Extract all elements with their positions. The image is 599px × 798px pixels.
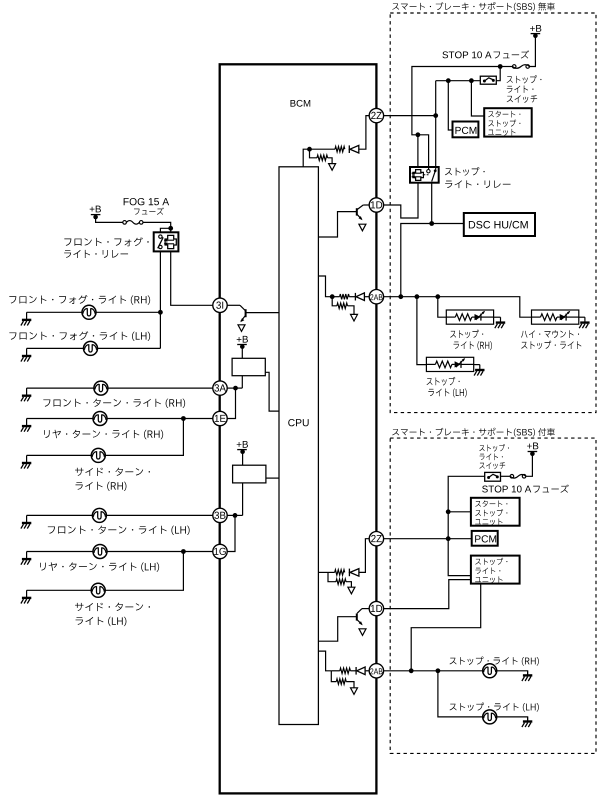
wire: DSC line bbox=[401, 224, 464, 297]
front fog light RH label bbox=[9, 295, 150, 305]
front turn light LH label bbox=[48, 526, 190, 535]
node 1D (upper) bbox=[369, 198, 383, 212]
node 1D (lower) bbox=[369, 601, 383, 615]
wire: +B to driver block 2 bbox=[242, 451, 244, 465]
internal ground arrow (Q2 emitter) bbox=[359, 224, 366, 231]
SBS-less system title bbox=[392, 2, 555, 11]
+B supply (SBS-less) bbox=[530, 25, 541, 32]
wire: stop light unit output bbox=[411, 584, 481, 671]
front fog light RH bulb bbox=[82, 305, 96, 319]
SBS-equipped system title bbox=[392, 428, 555, 437]
wire: diode to 2Z bbox=[359, 116, 370, 150]
wire: 3A to driver bbox=[227, 387, 242, 389]
wire: branch to stop light LH (lower) bbox=[438, 671, 483, 717]
wire: ground to side turn LH bulb bbox=[27, 589, 92, 591]
transistor Q2 (stop relay driver) bbox=[363, 204, 369, 206]
wire: branch to start-stop unit (lower) bbox=[448, 511, 471, 513]
fuse F2 STOP 10A (upper) bbox=[512, 65, 529, 69]
FOG 15 A fuse label bbox=[124, 198, 169, 205]
front turn light LH bulb bbox=[92, 508, 106, 522]
resistor R8 (pull-down) bbox=[331, 671, 336, 682]
node 2AB (lower) bbox=[369, 664, 383, 678]
rear turn light LH bulb bbox=[93, 545, 107, 559]
junction: stop LH branch (lower) bbox=[436, 668, 441, 673]
stop light RH (LED) bbox=[446, 310, 493, 324]
wire: rear turn RH bulb to BCM 1E bbox=[107, 418, 213, 420]
node 2Z (upper) bbox=[369, 108, 383, 122]
wire: rear turn LH bulb to BCM 1G bbox=[107, 551, 213, 553]
wire: driver block 1 to CPU bbox=[265, 372, 279, 411]
wire: fuse to fog relay bbox=[143, 222, 170, 228]
side turn light RH bulb bbox=[91, 448, 105, 462]
CPU label bbox=[288, 419, 308, 426]
DSC HU/CM box bbox=[464, 213, 535, 236]
junction: fuse output (upper) bbox=[498, 64, 503, 69]
wire + ground G13 bbox=[497, 717, 528, 722]
wire: relay switch to fog lights bbox=[159, 251, 161, 348]
wire: branch to relay coil bbox=[170, 228, 172, 232]
side turn light LH label bbox=[75, 603, 150, 611]
junction: 2Z/switch contact bbox=[433, 113, 438, 118]
wire: 1D to stop light unit bbox=[383, 580, 471, 609]
ground G1 bbox=[21, 312, 31, 325]
junction: stop RH branch bbox=[435, 294, 440, 299]
stop light LH label (lower) bbox=[450, 703, 539, 712]
wire: diode to lower 2AB bbox=[366, 670, 370, 672]
wire: fuse output to relay contacts feed bbox=[412, 67, 500, 170]
resistor R7 bbox=[331, 670, 340, 672]
wire: branch to relay switch contact bbox=[160, 228, 170, 232]
junction: fog relay feed bbox=[168, 226, 173, 231]
wire: driver block 2 output to 3B bbox=[242, 483, 244, 516]
front fog light relay label bbox=[64, 237, 148, 246]
fuse F1 FOG 15A bbox=[123, 221, 143, 225]
STOP 10A fuse label (lower) bbox=[482, 486, 531, 493]
junction: stop LH branch bbox=[415, 294, 420, 299]
wire: ground to side turn RH bulb bbox=[27, 454, 92, 456]
diode D3 bbox=[349, 569, 359, 577]
resistor R4 (pull-down) bbox=[332, 297, 337, 306]
stop light switch (upper) bbox=[480, 76, 496, 84]
CPU box bbox=[279, 167, 318, 725]
wire + ground G11 bbox=[474, 364, 480, 366]
front fog light relay bbox=[154, 232, 179, 251]
wire: +B to driver block 1 bbox=[241, 346, 243, 358]
stop light LH label (upper) bbox=[427, 377, 460, 386]
node 2AB (upper) bbox=[369, 290, 383, 304]
wire: driver block 1 output to 3A bbox=[241, 376, 243, 388]
wire: branch to PCM bbox=[448, 81, 452, 130]
wire: CPU to lower 2Z stage bbox=[318, 571, 328, 573]
stop light relay label bbox=[445, 167, 485, 176]
wire: junction to 1G bbox=[227, 515, 235, 551]
junction: start-stop unit branch (lower) bbox=[446, 509, 451, 514]
internal ground arrow (Q3 emitter) bbox=[359, 629, 366, 636]
+B supply (fog) bbox=[90, 206, 101, 213]
wire: +B to fog fuse bbox=[96, 217, 123, 223]
high-mount stop light label bbox=[521, 330, 579, 338]
front turn light RH bulb bbox=[94, 381, 108, 395]
start-stop unit box (upper) bbox=[484, 108, 532, 136]
node 3I bbox=[213, 298, 227, 312]
junction: rear/side turn RH bbox=[181, 416, 186, 421]
stop light RH label (lower) bbox=[450, 657, 539, 666]
diode D4 bbox=[350, 670, 356, 672]
wire: junction down to relay contact bbox=[435, 81, 437, 170]
ground G6 bbox=[21, 515, 31, 528]
rear turn light RH bulb bbox=[93, 412, 107, 426]
wire: side turn RH bulb to junction bbox=[105, 419, 183, 456]
internal ground arrow (Q1 emitter) bbox=[238, 325, 245, 332]
PCM box (lower) bbox=[472, 531, 498, 546]
STOP 10A fuse label (upper) bbox=[442, 51, 491, 58]
stop light LH (LED) bbox=[426, 357, 473, 371]
wire: front turn RH bulb to BCM 3A bbox=[108, 387, 213, 389]
stop light switch label (lower) bbox=[479, 444, 508, 451]
wire: switch to units feed bbox=[448, 476, 485, 575]
wire: junction to relay coil bbox=[417, 135, 419, 167]
resistor R3 bbox=[332, 296, 339, 298]
ground G5 bbox=[21, 455, 31, 468]
junction: 2Z stage bbox=[307, 147, 312, 152]
PCM box (upper) bbox=[453, 122, 479, 138]
wire + internal ground arrow R4 bbox=[348, 306, 355, 315]
wire: 2Z to relay bbox=[383, 115, 435, 117]
wire + ground G10 bbox=[579, 316, 585, 318]
wire: side turn LH bulb to junction bbox=[105, 552, 183, 591]
wire + internal ground arrow R8 bbox=[346, 682, 354, 688]
rear turn light LH label bbox=[40, 562, 159, 572]
ground G8 bbox=[21, 590, 31, 603]
wire: fuse to switch bbox=[501, 475, 510, 477]
diode D1 bbox=[349, 145, 359, 153]
ground G2 bbox=[21, 348, 31, 361]
wire: 2AB to stop light RH (lower) bbox=[383, 670, 482, 672]
driver block 1 bbox=[232, 358, 265, 375]
front fog light LH label bbox=[9, 331, 150, 341]
wire + internal ground arrow R6 bbox=[346, 582, 351, 588]
wire: branch to stop light LH bbox=[417, 297, 427, 365]
resistor R1 bbox=[310, 148, 336, 150]
junction: unit output on 2AB line bbox=[409, 668, 414, 673]
wire: branch to stop light RH bbox=[438, 297, 447, 318]
junction: 3B/1G common bbox=[233, 513, 238, 518]
wire: ground to front turn RH bulb bbox=[27, 387, 94, 389]
diode D2 bbox=[349, 296, 355, 298]
wire: CPU to lower 2AB stage bbox=[318, 651, 331, 671]
junction: start-stop unit branch bbox=[469, 78, 474, 83]
SBS-equipped dashed boundary box bbox=[390, 438, 596, 753]
stop light LH bulb (lower) bbox=[483, 710, 497, 724]
ground G4 bbox=[21, 419, 31, 432]
node 1G bbox=[213, 544, 227, 558]
wire + ground G12 bbox=[497, 671, 528, 676]
stop light unit box bbox=[471, 556, 520, 584]
junction: 2Z/PCM (lower) bbox=[446, 536, 451, 541]
wire: fuse junction to stop light switch bbox=[496, 67, 500, 81]
wire: ground to rear turn LH bulb bbox=[27, 551, 93, 553]
junction: rear/side turn LH bbox=[181, 549, 186, 554]
wire: 3B to driver bbox=[227, 514, 243, 516]
wire: relay coil to BCM 3I bbox=[171, 251, 213, 305]
junction: relay coil feed bbox=[416, 132, 421, 137]
wire: ground to rear turn RH bulb bbox=[27, 418, 93, 420]
wire: 2AB stop light feed bbox=[383, 297, 531, 318]
wire: +B to fuse (upper) bbox=[530, 35, 536, 66]
node 2Z (lower) bbox=[369, 532, 383, 546]
junction: 2AB stage bbox=[330, 294, 335, 299]
node 1E bbox=[213, 411, 227, 425]
stop light switch label (upper) bbox=[507, 75, 542, 83]
wire: ground to fog LH bulb bbox=[27, 347, 84, 349]
+B supply (turn LH driver) bbox=[237, 441, 248, 448]
wire: branch to start-stop unit bbox=[471, 81, 484, 116]
wire: 2Z to PCM bbox=[383, 538, 471, 540]
wire: fog RH bulb to relay feed bbox=[96, 311, 160, 313]
wire: driver block 2 to CPU bbox=[266, 477, 279, 479]
start-stop unit box (lower) bbox=[471, 498, 520, 526]
resistor R6 (pull-down) bbox=[328, 572, 336, 581]
wire: diode to lower 2Z bbox=[359, 539, 369, 573]
wire: front turn LH bulb to BCM 3B bbox=[106, 514, 213, 516]
wire: CPU to 2Z output stage bbox=[303, 149, 309, 167]
BCM label bbox=[290, 100, 310, 107]
node 3A bbox=[213, 381, 227, 395]
BCM unit box bbox=[220, 64, 377, 793]
junction: 3A/1E common bbox=[233, 386, 238, 391]
wire: CPU to 2AB stage bbox=[318, 276, 332, 297]
wire: junction to 1E bbox=[227, 388, 236, 418]
resistor R5 bbox=[328, 571, 335, 573]
wire: 1D to relay coil bbox=[383, 183, 418, 218]
+B supply (SBS-equipped) bbox=[527, 443, 538, 450]
driver block 2 bbox=[233, 465, 266, 483]
transistor Q1 (fog driver) bbox=[227, 304, 240, 306]
SBS-less dashed boundary box bbox=[390, 13, 596, 413]
ground G7 bbox=[21, 552, 31, 565]
front fog light LH bulb bbox=[84, 341, 98, 355]
junction: PCM branch bbox=[446, 78, 451, 83]
transistor Q3 (stop unit driver) bbox=[362, 608, 369, 610]
side turn light LH bulb bbox=[91, 583, 105, 597]
junction: DSC branch on 2AB line bbox=[398, 294, 403, 299]
ground G3 bbox=[21, 388, 31, 401]
wire: relay output down bbox=[431, 183, 433, 224]
resistor R2 (pull-down) bbox=[310, 149, 318, 158]
high-mount stop light (LED) bbox=[532, 310, 579, 324]
rear turn light RH label bbox=[44, 430, 163, 440]
front turn light RH label bbox=[43, 399, 185, 408]
wire: switch to PCM/start-stop feed bbox=[436, 80, 481, 82]
stop light relay bbox=[410, 167, 439, 183]
wire: fuse to junction bbox=[500, 66, 512, 68]
+B supply (turn RH driver) bbox=[237, 336, 248, 343]
wire: fog LH bulb to relay feed bbox=[98, 347, 161, 349]
node 3B bbox=[213, 508, 227, 522]
junction: fog RH/LH bbox=[158, 310, 163, 315]
wire: ground to front turn LH bulb bbox=[27, 514, 93, 516]
wire + internal ground arrow R2 bbox=[328, 158, 333, 164]
wire: +B to fuse (lower) bbox=[526, 453, 532, 476]
stop light RH label (upper) bbox=[450, 330, 483, 339]
wire: ground to fog RH bulb bbox=[27, 311, 82, 313]
stop light RH bulb (lower) bbox=[483, 664, 497, 678]
stop light switch (lower) bbox=[485, 472, 501, 481]
side turn light RH label bbox=[75, 468, 150, 476]
fuse F3 STOP 10A (lower) bbox=[510, 475, 526, 479]
wire + ground G9 bbox=[494, 316, 501, 318]
wire: diode to 2AB bbox=[365, 296, 370, 298]
junction: relay output/DSC bbox=[429, 221, 434, 226]
